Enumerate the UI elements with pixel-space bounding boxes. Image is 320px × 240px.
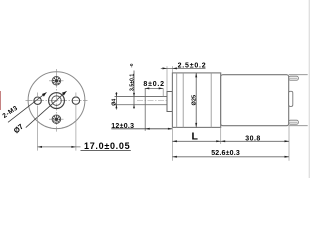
svg-text:2-M3: 2-M3 — [1, 105, 19, 120]
svg-text:-0: -0 — [129, 63, 134, 67]
svg-text:3.5±0.1: 3.5±0.1 — [130, 74, 136, 91]
svg-text:2.5±0.2: 2.5±0.2 — [178, 63, 207, 70]
svg-text:52.6±0.3: 52.6±0.3 — [211, 150, 240, 157]
svg-text:Ø25: Ø25 — [192, 95, 198, 106]
svg-text:8±0.2: 8±0.2 — [143, 81, 164, 88]
svg-text:Ø7: Ø7 — [12, 122, 25, 135]
svg-text:12±0.3: 12±0.3 — [111, 123, 134, 130]
svg-text:17.0±0.05: 17.0±0.05 — [84, 141, 130, 151]
svg-text:Ø4: Ø4 — [112, 99, 118, 106]
svg-text:L: L — [192, 131, 199, 143]
svg-text:30.8: 30.8 — [245, 136, 261, 143]
